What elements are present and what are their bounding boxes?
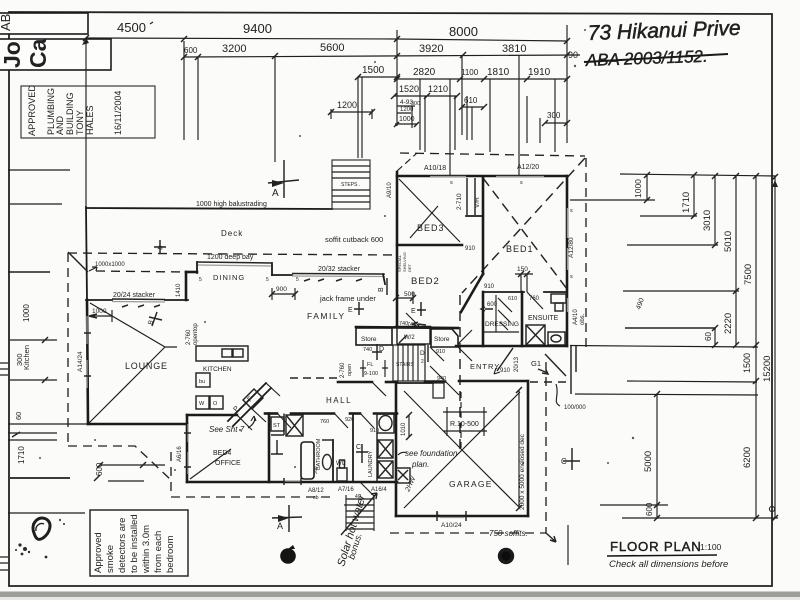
section marker E in BED2 (411, 302, 426, 316)
svg-text:1520: 1520 (399, 84, 419, 94)
dashed roof diagonal BED1 from NE corner (462, 158, 585, 293)
svg-text:940: 940 (437, 376, 446, 382)
svg-text:3010: 3010 (702, 210, 713, 231)
dim 1010 garage (401, 412, 412, 440)
svg-text:FLOOR PLAN: FLOOR PLAN (610, 539, 702, 554)
svg-text:s: s (520, 180, 523, 186)
dashed roof short above dining wall (96, 271, 186, 272)
pantry diamond F (243, 389, 263, 409)
svg-text:20/13: 20/13 (514, 356, 520, 372)
dim 900 under dining (269, 286, 298, 300)
kitchen peninsula diagonals (228, 383, 271, 426)
sticker box Jo Ca (0, 38, 111, 70)
svg-text:5600: 5600 (320, 42, 344, 54)
wall: garage east (527, 381, 530, 516)
svg-text:A10/24: A10/24 (441, 522, 462, 529)
dashed roof line top of bedroom wing (400, 153, 585, 156)
office door swing (237, 415, 252, 430)
basin (323, 455, 332, 470)
wall: garage west (395, 383, 398, 516)
dashed roof line below office/bath (171, 496, 330, 498)
wall: bedroom wing top (397, 175, 567, 178)
wall: hall south (265, 412, 277, 415)
svg-text:15200: 15200 (762, 356, 773, 382)
section marker B top (154, 240, 166, 254)
wall: family north stacker window (272, 274, 292, 276)
svg-text:opentop: opentop (193, 323, 199, 345)
svg-text:A12/80: A12/80 (568, 237, 575, 258)
BED2 door swing (406, 313, 420, 327)
dashed opening family-hall (290, 377, 338, 379)
svg-text:AB: AB (0, 14, 13, 31)
svg-text:1910: 1910 (528, 67, 551, 78)
svg-text:within 3.0m: within 3.0m (141, 525, 152, 574)
svg-text:9-100: 9-100 (364, 371, 378, 377)
porch hip diagonal (545, 354, 566, 376)
wall: store/robe north (356, 327, 458, 328)
svg-text:1410: 1410 (176, 283, 182, 297)
svg-text:500: 500 (404, 291, 415, 298)
D marker left (372, 344, 384, 360)
svg-text:open: open (347, 364, 353, 376)
svg-text:AND: AND (55, 115, 65, 135)
wall: lounge bottom (88, 423, 187, 426)
crossed-out ABA 2003/1152 (584, 47, 728, 70)
svg-text:A: A (272, 188, 279, 199)
short line right bottom (567, 525, 569, 565)
svg-text:W: W (199, 401, 205, 407)
kitchen bench and sink (196, 346, 248, 361)
svg-text:60: 60 (14, 412, 23, 420)
svg-text:APPROVED: APPROVED (27, 85, 37, 136)
wall: hall north (338, 381, 372, 384)
svg-text:ST: ST (273, 423, 281, 429)
office south window (284, 480, 301, 482)
angled robe wall BED1 (461, 274, 483, 312)
robe W/2 box (397, 328, 430, 344)
wall: dressing west (482, 292, 485, 346)
svg-text:Approved: Approved (93, 532, 104, 573)
dim 5010 / 2220 vertical (723, 175, 739, 348)
svg-text:150: 150 (517, 266, 528, 273)
svg-text:600: 600 (487, 302, 498, 308)
wall: house west (deck+lounge) (86, 207, 87, 300)
wall: dressing/ensuite divider (521, 292, 524, 346)
C marker bottom right (561, 448, 580, 470)
dashed roof line west of lounge (67, 253, 69, 446)
svg-text:1000x1000: 1000x1000 (95, 262, 125, 268)
svg-text:4500: 4500 (117, 20, 146, 35)
sticker box AB (0, 13, 88, 34)
wall: bath/wc divider (332, 440, 334, 482)
dashed roof corner below lounge (68, 446, 171, 480)
svg-text:KITCHEN: KITCHEN (203, 366, 232, 373)
wall: house east (566, 176, 569, 346)
paper speckles (39, 29, 634, 557)
svg-text:s: s (450, 180, 453, 186)
svg-text:FL: FL (367, 362, 373, 368)
svg-text:C: C (356, 444, 361, 451)
svg-text:STAIRS: STAIRS (396, 362, 414, 368)
svg-text:D: D (420, 350, 425, 357)
dressing interior shelves (483, 295, 519, 332)
svg-text:1710: 1710 (681, 192, 692, 213)
wall: lounge top with stacker (86, 299, 112, 301)
tiny stacked dims 4-93/300/1000 (394, 99, 420, 127)
dashed roof line above dining/deck (68, 253, 396, 255)
svg-text:610: 610 (464, 96, 478, 105)
svg-text:20/32 stacker: 20/32 stacker (318, 266, 361, 273)
svg-text:DET: DET (407, 263, 412, 272)
vertical extension lines from top dims (86, 25, 567, 207)
svg-text:A: A (277, 521, 283, 531)
svg-text:9400: 9400 (243, 21, 272, 36)
punch hole right (498, 548, 514, 564)
svg-text:LAUNDRY: LAUNDRY (368, 450, 374, 477)
svg-text:E: E (348, 307, 353, 314)
lounge window marks on west wall (86, 316, 88, 388)
svg-text:FAMILY: FAMILY (307, 311, 346, 321)
wall: office north (187, 414, 237, 417)
svg-text:A12/20: A12/20 (517, 164, 539, 171)
svg-text:8000: 8000 (449, 24, 478, 39)
svg-text:Store: Store (361, 336, 377, 343)
dashed ridge through entry (459, 295, 461, 450)
svg-text:E: E (411, 308, 416, 315)
svg-text:bu: bu (199, 379, 205, 385)
svg-text:760: 760 (320, 419, 329, 425)
svg-text:1:100: 1:100 (700, 542, 722, 552)
svg-text:A10/18: A10/18 (424, 165, 446, 172)
svg-text:A6/16: A6/16 (177, 446, 183, 462)
dim 1000 vertical (633, 175, 650, 203)
office west windows (187, 424, 189, 474)
FL 9-100 label (360, 360, 388, 377)
svg-text:200: 200 (313, 466, 318, 474)
garage hip diagonals (404, 391, 520, 508)
hand squiggle blob bottom-left (33, 518, 50, 539)
section marker B in lounge (147, 312, 162, 326)
svg-text:s: s (570, 274, 573, 280)
svg-text:6200: 6200 (742, 447, 753, 468)
svg-text:3810: 3810 (502, 43, 526, 55)
punch hole left (280, 548, 296, 564)
T box below laundry (0, 0, 1, 1)
svg-text:16/11/2004: 16/11/2004 (113, 91, 123, 135)
dim 5000 / 600 vertical (643, 391, 660, 521)
svg-text:A9/10: A9/10 (387, 182, 393, 198)
handwritten address 73 Hikanui Drive (587, 17, 741, 45)
dim 1500 (355, 65, 400, 80)
bathroom tub (301, 442, 314, 479)
kitchen fridge box (196, 373, 210, 387)
svg-text:R.10-500: R.10-500 (450, 421, 479, 428)
svg-text:5: 5 (266, 277, 269, 283)
svg-text:BED1: BED1 (506, 244, 534, 254)
laundry door swing to steps (360, 482, 374, 496)
svg-text:LOUNGE: LOUNGE (125, 361, 168, 371)
right dims top extension line (620, 172, 778, 180)
svg-text:TONY: TONY (75, 110, 85, 135)
svg-text:See Sht 7: See Sht 7 (209, 425, 245, 434)
svg-text:GARAGE: GARAGE (449, 479, 493, 489)
wall: BED2 south (396, 326, 430, 329)
svg-text:1000: 1000 (22, 304, 31, 322)
section marker E near family (348, 302, 364, 315)
svg-text:5: 5 (199, 277, 202, 283)
svg-text:BATHROOM: BATHROOM (316, 438, 322, 470)
svg-text:bedroom: bedroom (165, 535, 176, 573)
kitchen lower bench boxes (196, 396, 223, 409)
svg-text:3200: 3200 (222, 43, 246, 55)
svg-text:DRESSING: DRESSING (485, 321, 519, 328)
store box left (356, 328, 392, 353)
BED3 hip diagonals (399, 179, 460, 242)
svg-text:5: 5 (296, 277, 299, 283)
up arrow tick at 4500 start (82, 38, 89, 45)
svg-text:600: 600 (645, 502, 654, 516)
laundry appliance X boxes (378, 440, 393, 478)
svg-text:C: C (561, 457, 567, 466)
svg-text:A4/10: A4/10 (573, 309, 579, 325)
svg-text:ob: ob (313, 495, 319, 501)
lounge hip diagonals (89, 303, 177, 423)
laundry tub circle (377, 414, 394, 433)
dim row1 line 4500/9400/8000 (83, 20, 570, 44)
wall: ensuite south / entry top (456, 345, 567, 348)
svg-text:BED2: BED2 (411, 276, 440, 287)
wall: entry south (425, 380, 445, 383)
entry door + swing (497, 348, 513, 371)
svg-text:2-760: 2-760 (340, 362, 346, 378)
svg-text:2-760: 2-760 (186, 329, 192, 345)
hot water T box (396, 468, 410, 483)
store pentagon right (431, 329, 458, 355)
dashed roof line east of bedroom wing (585, 158, 587, 350)
svg-text:jack frame under: jack frame under (319, 294, 376, 303)
svg-text:2220: 2220 (723, 313, 734, 334)
dashed roof line east of garage (545, 362, 547, 533)
svg-text:300: 300 (547, 111, 561, 120)
svg-text:1500: 1500 (742, 353, 752, 373)
svg-text:smoke: smoke (105, 545, 116, 573)
svg-text:1200 deep bay: 1200 deep bay (207, 254, 254, 261)
dim row2 line 600/3200/5600 + 3920/3810 (181, 42, 580, 60)
right horizontal extension lines (570, 200, 778, 518)
left edge tick marks (0, 363, 8, 570)
approval stamp box (21, 85, 155, 138)
svg-text:1010: 1010 (401, 422, 407, 436)
porch leader and 100/000 (556, 384, 560, 406)
wall: BED1 west (482, 178, 485, 274)
dim 1710 vertical (681, 175, 697, 219)
dim 7500 / 1500 / 6200 vertical (742, 175, 759, 521)
exterior steps below laundry (346, 495, 374, 531)
dim 1200 (328, 100, 375, 119)
svg-text:90: 90 (568, 50, 578, 60)
svg-text:from each: from each (153, 531, 164, 573)
svg-text:B: B (378, 287, 385, 292)
svg-text:1000: 1000 (633, 179, 643, 198)
svg-text:60: 60 (704, 332, 713, 341)
svg-text:Kitchen: Kitchen (22, 345, 31, 370)
linen X box (286, 415, 303, 436)
svg-text:900: 900 (276, 286, 287, 293)
svg-text:A7/16: A7/16 (338, 487, 354, 493)
wall: bedroom wing west (396, 172, 399, 327)
svg-text:1200: 1200 (337, 100, 357, 110)
svg-text:910: 910 (500, 368, 511, 374)
small swing at kitchen/hall (252, 383, 280, 422)
svg-text:3920: 3920 (419, 43, 443, 55)
section marker A top (268, 160, 299, 199)
svg-text:HALL: HALL (326, 396, 352, 405)
dim 610 (459, 96, 487, 110)
wall: dining west step (186, 271, 197, 274)
dashed porch segs (530, 381, 566, 383)
svg-text:740: 740 (363, 347, 372, 353)
wall: garage south (396, 515, 528, 518)
deck balustrade top (86, 208, 332, 209)
svg-text:BED3: BED3 (417, 223, 445, 233)
svg-text:610: 610 (508, 296, 517, 302)
svg-text:OFFICE: OFFICE (215, 460, 241, 467)
internal stairs (393, 345, 425, 381)
wall: wc/laundry divider (352, 414, 354, 483)
svg-text:s: s (570, 208, 573, 214)
dim row4 1520/1210 (391, 84, 460, 99)
svg-text:A14/24: A14/24 (77, 351, 84, 372)
RL 10-500 label (443, 407, 487, 436)
wall: dressing top (483, 291, 524, 293)
dashed roof diagonal BED1 second leg (483, 178, 567, 289)
svg-text:5000: 5000 (643, 451, 654, 472)
wall: garage north piece + step notch (396, 382, 433, 384)
svg-text:ENSUITE: ENSUITE (528, 315, 559, 322)
svg-text:STEPS .: STEPS . (341, 182, 360, 188)
ensuite vanity (551, 294, 566, 311)
D marker right (420, 345, 428, 365)
svg-text:20/24 stacker: 20/24 stacker (113, 292, 156, 299)
svg-text:Jo: Jo (0, 41, 25, 68)
wall: house south (office wing) (187, 481, 397, 484)
exterior steps to deck (332, 160, 370, 209)
deck east wall bits (571, 346, 576, 394)
svg-text:1710: 1710 (17, 446, 26, 464)
C marker (356, 444, 368, 463)
dim 500 in BED2 (393, 291, 416, 304)
thicker wall extension right (625, 327, 716, 329)
wall: office west (186, 415, 189, 482)
ensuite toilet (548, 332, 565, 345)
door swings right of store2 (430, 330, 472, 380)
svg-text:G1: G1 (531, 359, 541, 368)
svg-text:2820: 2820 (413, 67, 436, 78)
ensuite shower X box (526, 325, 545, 345)
section marker A bottom (272, 505, 302, 532)
dim 3010 vertical (702, 175, 718, 348)
hall door swings (372, 381, 459, 396)
dashed roof line below garage (390, 532, 546, 534)
svg-text:see foundation: see foundation (405, 449, 458, 458)
svg-text:2-710: 2-710 (456, 193, 463, 210)
svg-text:soffit cutback 600: soffit cutback 600 (325, 235, 383, 244)
svg-text:DINING: DINING (213, 273, 245, 282)
bay window (197, 262, 272, 263)
east windows gray (567, 208, 569, 312)
dashed roof line west of office (170, 452, 172, 497)
svg-text:Ca: Ca (25, 38, 51, 68)
svg-text:detectors are: detectors are (117, 518, 128, 573)
svg-text:600: 600 (95, 462, 104, 476)
svg-text:A8/12: A8/12 (308, 488, 324, 494)
svg-text:750 soffits.: 750 soffits. (489, 529, 528, 538)
svg-text:obs.: obs. (580, 313, 586, 325)
dim row3 2820/1100/1810/1910 (394, 67, 570, 82)
svg-text:1210: 1210 (428, 84, 448, 94)
svg-text:BUILDING: BUILDING (65, 92, 75, 135)
svg-text:1810: 1810 (487, 67, 510, 78)
svg-text:to be installed: to be installed (129, 514, 140, 573)
ink smudge specks bottom-left (15, 523, 171, 562)
svg-text:V/R: V/R (474, 197, 481, 208)
hip diagonal into dining corner (68, 252, 88, 272)
svg-text:1100: 1100 (461, 68, 479, 77)
dim 1000 under lounge top (89, 308, 112, 322)
svg-text:O: O (213, 401, 218, 407)
toilet (337, 460, 347, 481)
svg-text:5010: 5010 (723, 231, 734, 252)
dim 300 small right (542, 111, 570, 126)
roof corner arrow SE of garage (546, 533, 556, 542)
svg-text:2000 x 5000 enclosed dec: 2000 x 5000 enclosed dec (519, 433, 526, 510)
scanner bottom band (0, 592, 800, 598)
svg-text:600: 600 (184, 46, 198, 55)
svg-text:Deck: Deck (221, 229, 243, 238)
svg-text:plan.: plan. (411, 460, 429, 469)
svg-text:910: 910 (465, 246, 476, 252)
svg-text:A16/4: A16/4 (371, 487, 387, 493)
svg-text:1500: 1500 (362, 65, 385, 76)
svg-text:Store: Store (434, 336, 450, 343)
windows gray on top wall (430, 176, 544, 178)
robe walls between BED3 and BED1 (467, 178, 475, 215)
svg-text:910: 910 (484, 284, 495, 290)
dim 15200 vertical (762, 176, 778, 521)
office hip diagonal (190, 449, 231, 479)
ST cupboard (271, 414, 284, 436)
ensuite door swing (527, 292, 543, 309)
svg-text:1000 high balustrading: 1000 high balustrading (196, 201, 267, 208)
dim 150 BED1 nib (515, 266, 533, 292)
svg-text:Check all dimensions before: Check all dimensions before (609, 559, 728, 570)
wall: office east (268, 414, 271, 483)
wall: BED3 south (397, 244, 462, 247)
svg-text:100/000: 100/000 (564, 405, 586, 411)
dashed corner diagonal NW of bedroom wing (397, 153, 417, 171)
svg-text:7500: 7500 (743, 264, 754, 285)
svg-text:D: D (379, 346, 384, 353)
hall south door swings (277, 413, 374, 428)
svg-text:2: 2 (421, 359, 424, 365)
